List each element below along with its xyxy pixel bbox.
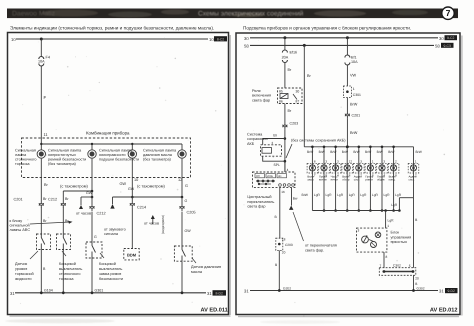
wire: jog from lamp2 to parking-brake chain — [63, 190, 92, 192]
svg-text:жидкости: жидкости — [15, 277, 31, 281]
svg-text:9-C2: 9-C2 — [447, 36, 454, 40]
svg-text:Br: Br — [307, 74, 312, 78]
svg-text:Элементы индикации (стояночный: Элементы индикации (стояночный тормоз, р… — [10, 26, 214, 31]
svg-text:10: 10 — [11, 37, 16, 42]
svg-text:лампа: лампа — [15, 153, 27, 157]
svg-text:Концевой: Концевой — [99, 262, 116, 266]
svg-text:непристегнутых: непристегнутых — [48, 153, 76, 157]
svg-text:31: 31 — [439, 289, 444, 294]
svg-text:света фар.: света фар. — [305, 248, 324, 252]
svg-text:LgR: LgR — [314, 193, 321, 197]
wire lamp8 — [392, 173, 401, 212]
wire: top bus 10 — [16, 38, 208, 40]
switch box: parking brake switch — [57, 234, 71, 250]
wire module pin7 — [380, 252, 388, 268]
connector C212b — [90, 197, 94, 211]
svg-text:87: 87 — [296, 100, 300, 104]
v3 from bus30 fuse Ef1 10A — [346, 36, 349, 39]
svg-text:LgR: LgR — [388, 219, 395, 223]
svg-text:Br: Br — [288, 68, 293, 72]
svg-text:AV ED.012: AV ED.012 — [430, 308, 458, 314]
vertical v1 from bus30 — [283, 36, 286, 39]
svg-text:7: 7 — [446, 8, 451, 18]
svg-text:от переключателя: от переключателя — [305, 244, 337, 248]
svg-text:10: 10 — [209, 37, 214, 42]
svg-text:10A: 10A — [38, 60, 45, 64]
scan speckle noise (decorative) — [156, 66, 157, 67]
svg-text:B: B — [275, 215, 278, 219]
lamp: seat belt warning — [88, 150, 96, 158]
svg-text:(без тахометра): (без тахометра) — [48, 162, 77, 166]
illumination lamp 9 — [408, 147, 422, 182]
illumination lamp 8 — [388, 146, 399, 182]
svg-text:BrW: BrW — [342, 150, 348, 154]
wires out of cluster bottom — [40, 159, 42, 191]
svg-text:масла: масла — [191, 270, 203, 274]
svg-text:30: 30 — [296, 90, 300, 94]
illumination lamp 2 — [319, 146, 330, 182]
svg-text:11: 11 — [44, 132, 49, 137]
illumination lamp 6 — [365, 146, 376, 182]
illumination lamp 3 — [330, 146, 341, 182]
svg-text:VW: VW — [350, 74, 357, 78]
wire: fuse drop — [40, 39, 42, 57]
wire Bw branch arrow — [289, 188, 337, 253]
wire lamp9 jog to collector — [391, 173, 413, 212]
svg-text:LgR: LgR — [349, 193, 356, 197]
svg-text:BrW: BrW — [330, 150, 336, 154]
svg-text:58: 58 — [244, 43, 249, 48]
header black bar — [7, 9, 458, 19]
wire lamp2 to collector — [323, 173, 332, 212]
instrument cluster dashed box — [22, 138, 191, 178]
svg-text:4: 4 — [287, 168, 289, 172]
svg-text:10: 10 — [134, 178, 138, 182]
svg-text:LgR: LgR — [360, 193, 367, 197]
battery saver box — [261, 145, 282, 156]
svg-text:Центральный: Центральный — [247, 195, 271, 199]
wire connector to ground bus — [414, 275, 419, 290]
svg-text:LgR: LgR — [372, 193, 379, 197]
svg-text:риват: риват — [365, 178, 373, 182]
svg-text:8: 8 — [386, 255, 388, 259]
svg-text:переключатель: переключатель — [247, 200, 274, 204]
bottom bus 31 — [15, 292, 206, 294]
svg-text:лампы ABC: лампы ABC — [10, 228, 31, 232]
wire lamp6 to collector — [369, 173, 378, 212]
svg-text:C203: C203 — [290, 122, 299, 126]
svg-text:31: 31 — [10, 291, 15, 296]
svg-text:8-D2: 8-D2 — [216, 292, 223, 296]
svg-text:C205: C205 — [187, 211, 196, 215]
svg-text:GW: GW — [119, 182, 126, 186]
svg-text:7: 7 — [380, 264, 382, 268]
svg-text:BrW: BrW — [365, 150, 371, 154]
svg-text:10A: 10A — [351, 60, 358, 64]
svg-text:30: 30 — [244, 36, 249, 41]
svg-text:85: 85 — [279, 90, 283, 94]
central headlight switch — [253, 172, 296, 188]
svg-text:GW: GW — [185, 229, 192, 233]
wire illumination collector bus — [312, 210, 399, 212]
wire lamp7 to collector — [381, 173, 390, 212]
svg-text:ремней безопасности: ремней безопасности — [48, 158, 86, 162]
svg-text:сигнала: сигнала — [104, 232, 119, 236]
svg-text:замка ремня: замка ремня — [99, 272, 121, 276]
svg-text:Сигнальная лампа: Сигнальная лампа — [99, 149, 133, 153]
svg-text:Комбинация прибора: Комбинация прибора — [86, 131, 130, 136]
svg-text:Концевой: Концевой — [59, 262, 76, 266]
svg-text:Br: Br — [43, 197, 47, 201]
svg-text:AV ED.011: AV ED.011 — [201, 308, 228, 314]
switch box: oil pressure sensor — [174, 246, 192, 261]
svg-text:5: 5 — [409, 264, 411, 268]
wire lamp9 long drop — [409, 198, 418, 268]
svg-text:C302: C302 — [393, 264, 401, 268]
svg-text:неисправности: неисправности — [99, 153, 126, 157]
svg-text:выключатель: выключатель — [99, 267, 122, 271]
svg-text:B: B — [43, 267, 46, 271]
svg-text:включения: включения — [252, 94, 271, 98]
svg-text:12: 12 — [178, 178, 182, 182]
svg-text:3: 3 — [358, 229, 360, 233]
wire below relay — [284, 104, 286, 124]
svg-text:86: 86 — [279, 100, 283, 104]
illumination lamp 5 — [353, 146, 364, 182]
svg-text:(с тахометром): (с тахометром) — [60, 184, 89, 189]
arrow from clock (lamp3 area) — [151, 215, 155, 219]
svg-text:F4: F4 — [46, 55, 51, 60]
svg-text:BrW: BrW — [302, 193, 309, 197]
svg-text:Система: Система — [247, 133, 263, 137]
svg-text:1: 1 — [353, 87, 355, 91]
svg-text:C203: C203 — [285, 243, 293, 247]
wire: lamp4 chain C205 — [180, 197, 184, 211]
svg-text:3: 3 — [272, 141, 274, 145]
connector C302 — [379, 264, 416, 276]
svg-text:света фар: света фар — [247, 205, 265, 209]
svg-text:9-C3: 9-C3 — [444, 44, 451, 48]
svg-text:BrW: BrW — [350, 103, 358, 107]
v2 from bus58 — [303, 44, 306, 47]
svg-text:Датчик давления: Датчик давления — [191, 265, 221, 269]
wire connector to bus — [275, 250, 279, 290]
lamp: oil pressure warning — [178, 150, 186, 158]
svg-text:Daewoo Matiz: Daewoo Matiz — [12, 11, 56, 18]
svg-text:Off: Off — [256, 175, 260, 178]
svg-text:LgR: LgR — [395, 193, 402, 197]
wire: jog lamp3-lamp4 — [132, 196, 182, 198]
top bus 30 — [250, 37, 438, 39]
svg-text:авар.: авар. — [307, 178, 314, 182]
svg-text:LgR: LgR — [337, 193, 344, 197]
svg-text:BrW: BrW — [416, 150, 422, 154]
positions: 309.2 321.3 333.8 345.9 358 370.1 382.2 394.3 415.6 — [0, 0, 1, 1]
svg-text:к блоку: к блоку — [10, 219, 23, 223]
wires to switches — [40, 208, 42, 234]
switch box: brake fluid level sensor — [37, 234, 51, 250]
svg-text:давления масла: давления масла — [143, 153, 173, 157]
svg-text:безопасности: безопасности — [99, 277, 123, 281]
svg-text:вотум: вотум — [319, 178, 327, 182]
svg-text:управления: управления — [391, 235, 412, 239]
svg-text:G: G — [94, 235, 97, 239]
svg-text:стояночного: стояночного — [59, 272, 81, 276]
switch box: seat belt buckle switch — [86, 242, 102, 258]
arrow: from horn — [113, 196, 133, 198]
svg-text:G301: G301 — [95, 289, 104, 293]
svg-text:20: 20 — [415, 277, 419, 281]
svg-text:BrW: BrW — [377, 150, 383, 154]
wire lamp4 to collector — [346, 173, 355, 212]
svg-text:C301: C301 — [353, 93, 361, 97]
svg-text:G104: G104 — [44, 289, 53, 293]
svg-text:F: F — [44, 95, 47, 100]
svg-text:BrW: BrW — [319, 150, 325, 154]
svg-text:печки: печки — [331, 178, 339, 182]
svg-text:C214: C214 — [137, 206, 146, 210]
svg-text:58: 58 — [435, 43, 440, 48]
svg-text:LgR: LgR — [391, 203, 398, 207]
svg-text:Br: Br — [44, 183, 49, 187]
svg-text:Ef16: Ef16 — [290, 51, 298, 55]
svg-text:Br: Br — [65, 197, 69, 201]
svg-text:(с тахометром): (с тахометром) — [137, 184, 166, 189]
right diagram frame — [236, 33, 460, 315]
brightness control module U1 — [357, 228, 387, 252]
connector C202 — [276, 238, 293, 255]
fuse F4 10A — [39, 57, 44, 60]
svg-text:Реле: Реле — [252, 89, 261, 93]
ground bus 31 right — [244, 286, 458, 293]
svg-text:Схемы электрических соединений: Схемы электрических соединений — [198, 10, 304, 17]
lamp feed bus — [304, 146, 413, 148]
connector C301 dashed — [343, 86, 351, 98]
svg-text:света фар: света фар — [252, 98, 270, 102]
lamp: airbag warning — [128, 150, 136, 158]
svg-text:яркостью: яркостью — [391, 240, 408, 244]
BDM box — [124, 249, 139, 260]
wire: F down to cluster — [40, 66, 42, 138]
svg-text:от часов: от часов — [76, 212, 91, 216]
svg-text:тормозной: тормозной — [15, 272, 34, 276]
illumination lamps row — [0, 0, 1, 1]
svg-text:Br: Br — [288, 109, 293, 113]
wire: lamp3 chain with C214 — [130, 197, 134, 208]
illumination lamp 4 — [342, 146, 353, 182]
svg-text:C212: C212 — [97, 212, 106, 216]
svg-text:1: 1 — [387, 224, 389, 228]
svg-text:обогр: обогр — [342, 178, 350, 182]
wire: lamp2 drop split — [91, 196, 94, 199]
circled page number 7 — [442, 7, 454, 19]
svg-text:Сигнальная: Сигнальная — [15, 149, 36, 153]
svg-text:(без системы сохранения АКБ): (без системы сохранения АКБ) — [291, 139, 346, 143]
connector C203 — [283, 123, 287, 129]
svg-text:B: B — [275, 263, 278, 267]
bypass diagonal — [286, 144, 292, 158]
svg-text:сохранения: сохранения — [247, 137, 268, 141]
fuse Ef16 20A — [282, 50, 287, 53]
svg-text:G302: G302 — [417, 286, 425, 290]
svg-text:от часов: от часов — [144, 222, 159, 226]
arrow to clock — [79, 205, 83, 209]
svg-text:31: 31 — [244, 289, 249, 294]
svg-text:B: B — [415, 218, 418, 222]
wire: cluster inner bus — [40, 138, 42, 150]
connector — [345, 112, 349, 118]
svg-text:16: 16 — [281, 190, 285, 194]
svg-text:9-D2: 9-D2 — [448, 289, 455, 293]
svg-text:Сигнальная лампа: Сигнальная лампа — [143, 149, 177, 153]
connector C212a — [61, 201, 65, 208]
node on bus — [40, 38, 43, 41]
svg-text:3D: 3D — [278, 175, 281, 178]
wire lamp5 to collector — [358, 173, 367, 212]
svg-text:(без тахометра): (без тахометра) — [143, 158, 172, 162]
bus 58 — [250, 44, 434, 46]
wire to headlight switch — [284, 162, 286, 173]
svg-text:LgR: LgR — [326, 193, 333, 197]
svg-text:выключатель: выключатель — [59, 267, 82, 271]
connector C201 — [39, 201, 43, 208]
svg-text:Датчик: Датчик — [15, 262, 27, 266]
svg-text:подушки безопасности: подушки безопасности — [99, 158, 139, 162]
svg-text:уровня: уровня — [15, 267, 27, 271]
svg-text:20A: 20A — [282, 55, 289, 59]
svg-text:SPL: SPL — [274, 163, 281, 167]
svg-text:Bw: Bw — [293, 197, 298, 201]
svg-text:G: G — [185, 184, 188, 188]
svg-text:30: 30 — [439, 36, 444, 41]
left diagram frame — [8, 33, 229, 315]
svg-text:BrW: BrW — [388, 150, 394, 154]
svg-text:C201: C201 — [14, 198, 23, 202]
svg-text:BrW: BrW — [307, 150, 313, 154]
svg-text:от звукового: от звукового — [104, 228, 126, 232]
wire lamp1 to collector — [312, 173, 320, 211]
svg-text:тормоза: тормоза — [15, 162, 30, 166]
svg-text:8-C2: 8-C2 — [217, 37, 224, 41]
svg-text:Br: Br — [273, 134, 277, 138]
svg-text:стояночного: стояночного — [15, 158, 37, 162]
svg-text:обдув: обдув — [377, 178, 385, 182]
note: to ABS warning lamp block — [30, 222, 70, 224]
svg-text:АКБ: АКБ — [247, 142, 255, 146]
relay: headlight relay — [278, 88, 303, 104]
svg-text:LgR: LgR — [384, 193, 391, 197]
wire to brightness module — [384, 209, 394, 228]
svg-text:BrW: BrW — [350, 131, 358, 135]
svg-text:Подсветка приборов и органов у: Подсветка приборов и органов управления … — [243, 26, 411, 31]
illumination lamp 7 — [377, 146, 388, 182]
svg-text:20: 20 — [282, 251, 286, 255]
svg-text:конд.: конд. — [389, 178, 396, 182]
svg-text:BrW: BrW — [353, 150, 359, 154]
svg-text:(видеореле): (видеореле) — [161, 215, 165, 234]
svg-text:C212: C212 — [48, 198, 57, 202]
wire lamp3 to collector — [334, 173, 343, 212]
svg-text:BDM: BDM — [127, 253, 137, 258]
svg-text:Сигнальная лампа: Сигнальная лампа — [48, 149, 82, 153]
illumination lamp 1 — [307, 146, 318, 182]
svg-text:сигнальной: сигнальной — [10, 224, 30, 228]
svg-text:Br: Br — [43, 219, 47, 223]
svg-text:тормоза: тормоза — [59, 277, 74, 281]
svg-text:31: 31 — [207, 291, 212, 296]
svg-text:18: 18 — [282, 238, 286, 242]
svg-text:G: G — [185, 199, 188, 203]
svg-text:G202: G202 — [283, 286, 291, 290]
lamp: parking brake warning — [37, 150, 45, 158]
svg-text:GW: GW — [128, 187, 135, 191]
wire switch to ground — [275, 188, 286, 239]
svg-text:C201: C201 — [352, 114, 361, 118]
svg-text:Блок: Блок — [391, 231, 400, 235]
svg-text:200E: 200E — [267, 175, 273, 178]
